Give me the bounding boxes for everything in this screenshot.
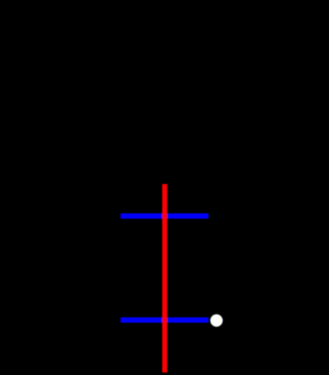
wire: vertical red line [162,184,167,373]
node: white terminal dot [210,314,222,326]
wire: lower blue horizontal segment [121,317,209,322]
wire: upper blue horizontal segment [121,213,209,218]
